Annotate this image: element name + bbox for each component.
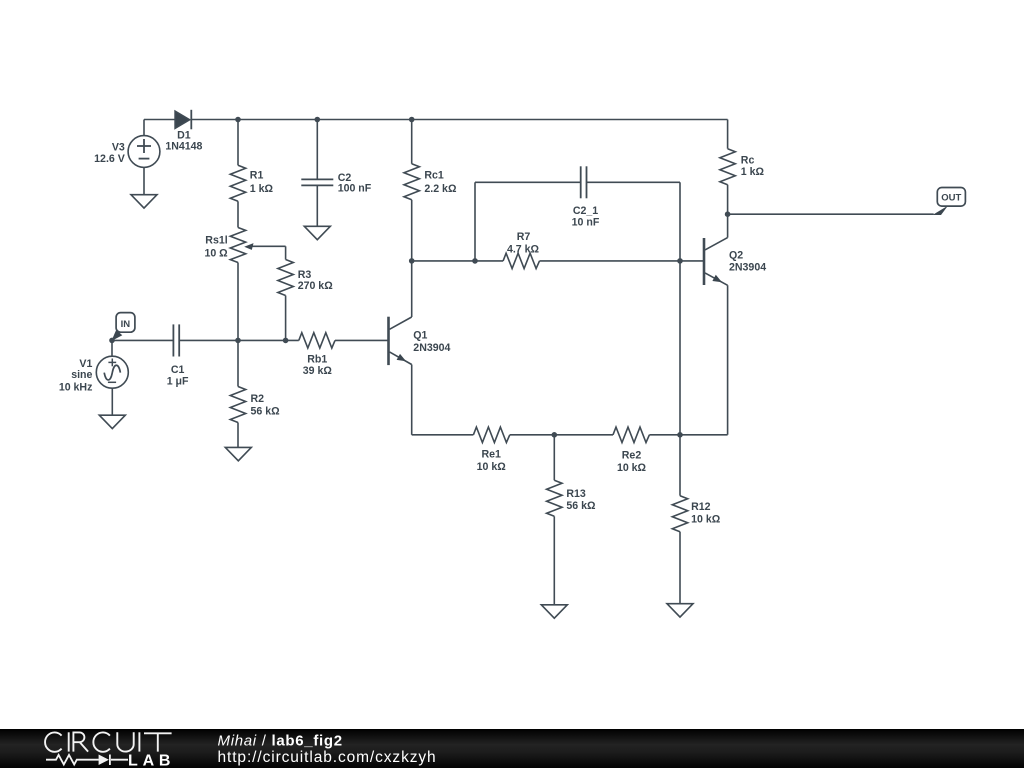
wire IN node to C1 — [112, 339, 173, 341]
wire Q2 base — [680, 260, 703, 262]
svg-text:Re1: Re1 — [481, 449, 501, 461]
node feedback/Q2 base — [677, 258, 683, 264]
node C1/R2 — [235, 338, 241, 344]
node Re2/R12 — [677, 432, 683, 438]
svg-text:V1: V1 — [79, 358, 92, 370]
svg-text:R13: R13 — [566, 488, 586, 500]
wire feedback top left — [475, 181, 581, 183]
node R3/input — [283, 338, 289, 344]
svg-text:R1: R1 — [250, 170, 264, 182]
wire Rs1l to input node — [237, 263, 239, 341]
svg-text:56 kΩ: 56 kΩ — [566, 500, 596, 512]
node rail/C2 — [315, 117, 321, 123]
resistor Re2 — [613, 427, 728, 474]
ground under R13 — [541, 605, 567, 618]
resistor R12 — [672, 435, 720, 604]
svg-text:10 Ω: 10 Ω — [204, 247, 228, 259]
capacitor C2_1 — [572, 166, 600, 228]
node feedback branch left — [472, 258, 478, 264]
svg-text:10 kHz: 10 kHz — [59, 382, 93, 394]
svg-text:56 kΩ: 56 kΩ — [251, 405, 281, 417]
ground under C2 — [304, 226, 330, 239]
svg-text:C1: C1 — [171, 364, 185, 376]
logo diode triangle — [99, 755, 109, 766]
svg-text:1 kΩ: 1 kΩ — [741, 166, 765, 178]
svg-text:R12: R12 — [691, 501, 711, 513]
ground under R2 — [225, 447, 251, 460]
svg-text:39 kΩ: 39 kΩ — [303, 365, 333, 377]
svg-text:Re2: Re2 — [622, 450, 642, 462]
diode D1 — [165, 110, 202, 153]
wire to OUT — [728, 213, 934, 215]
node collector/feedback — [409, 258, 415, 264]
ground under V3 — [131, 195, 157, 208]
wire feedback up left — [474, 182, 476, 261]
wire collector node to R7 — [412, 260, 503, 262]
svg-text:1 μF: 1 μF — [167, 376, 189, 388]
node rail/Rc1 — [409, 117, 415, 123]
voltage source V3 — [94, 120, 160, 195]
transistor Q1 — [389, 317, 451, 365]
svg-text:2N3904: 2N3904 — [413, 342, 450, 354]
wire top rail right of D1 — [191, 119, 727, 121]
node IN/V1 — [109, 338, 115, 344]
resistor Rc — [720, 120, 765, 215]
resistor R13 — [547, 435, 596, 605]
sine source V1 — [59, 340, 128, 415]
svg-text:V3: V3 — [112, 141, 125, 153]
resistor Re1 — [473, 427, 613, 473]
potentiometer Rs1l — [204, 228, 285, 263]
svg-text:12.6 V: 12.6 V — [94, 153, 125, 165]
IN flag — [111, 313, 134, 341]
svg-text:R2: R2 — [251, 393, 265, 405]
svg-text:R7: R7 — [517, 231, 531, 243]
svg-text:270 kΩ: 270 kΩ — [298, 280, 334, 292]
node rail/R1 — [235, 117, 241, 123]
svg-text:C2_1: C2_1 — [573, 205, 598, 217]
svg-text:1N4148: 1N4148 — [165, 140, 202, 152]
svg-text:http://circuitlab.com/cxzkzyh: http://circuitlab.com/cxzkzyh — [218, 749, 437, 766]
resistor R3 — [278, 246, 333, 340]
svg-text:10 kΩ: 10 kΩ — [617, 462, 647, 474]
capacitor C1 — [167, 324, 238, 387]
ground under R12 — [667, 604, 693, 617]
footer bar — [0, 729, 1024, 768]
svg-text:4.7 kΩ: 4.7 kΩ — [507, 243, 540, 255]
CircuitLab logo word CIRCUIT (monoline letters), bar-local coords (y-729) — [45, 732, 172, 752]
svg-text:Q2: Q2 — [729, 249, 743, 261]
wire emitter line — [412, 434, 474, 436]
wire Q2 emitter — [727, 285, 729, 435]
wire Q1 collector — [411, 261, 413, 317]
svg-text:Rc: Rc — [741, 154, 755, 166]
OUT flag — [933, 188, 966, 216]
wire feedback down right — [679, 182, 681, 261]
svg-text:Q1: Q1 — [413, 330, 427, 342]
transistor Q2 — [704, 238, 766, 286]
resistor R2 — [230, 340, 280, 447]
wire feedback top right — [587, 181, 681, 183]
svg-text:10 nF: 10 nF — [572, 216, 600, 228]
node Rc/OUT — [725, 211, 731, 217]
svg-text:sine: sine — [71, 369, 92, 381]
capacitor C2 — [301, 120, 371, 227]
wire Q2 collector — [727, 214, 729, 237]
svg-text:OUT: OUT — [941, 193, 961, 204]
svg-text:2.2 kΩ: 2.2 kΩ — [424, 183, 457, 195]
node Re1/R13 — [552, 432, 558, 438]
svg-text:10 kΩ: 10 kΩ — [477, 461, 507, 473]
wire input node to Rb1 — [238, 339, 299, 341]
resistor R1 — [230, 120, 273, 202]
wire Q1 emitter — [411, 365, 413, 435]
svg-text:1 kΩ: 1 kΩ — [250, 183, 274, 195]
wire top rail left of D1 — [144, 119, 175, 121]
svg-text:LAB: LAB — [128, 752, 175, 768]
svg-text:Rb1: Rb1 — [307, 353, 327, 365]
resistor R7 — [503, 231, 680, 268]
wire down to emitter line — [679, 261, 681, 435]
svg-text:10 kΩ: 10 kΩ — [691, 513, 721, 525]
svg-text:100 nF: 100 nF — [338, 183, 372, 195]
svg-text:Mihai / lab6_fig2: Mihai / lab6_fig2 — [218, 732, 343, 749]
wire R1 to Rs1l — [237, 201, 239, 227]
resistor Rb1 — [299, 333, 389, 378]
logo resistor-diode line — [46, 755, 128, 766]
resistor Rc1 — [404, 120, 457, 261]
svg-text:Rc1: Rc1 — [424, 170, 444, 182]
ground under V1 — [99, 415, 125, 428]
svg-text:Rs1l: Rs1l — [205, 235, 227, 247]
svg-text:2N3904: 2N3904 — [729, 262, 766, 274]
svg-text:IN: IN — [121, 319, 131, 330]
